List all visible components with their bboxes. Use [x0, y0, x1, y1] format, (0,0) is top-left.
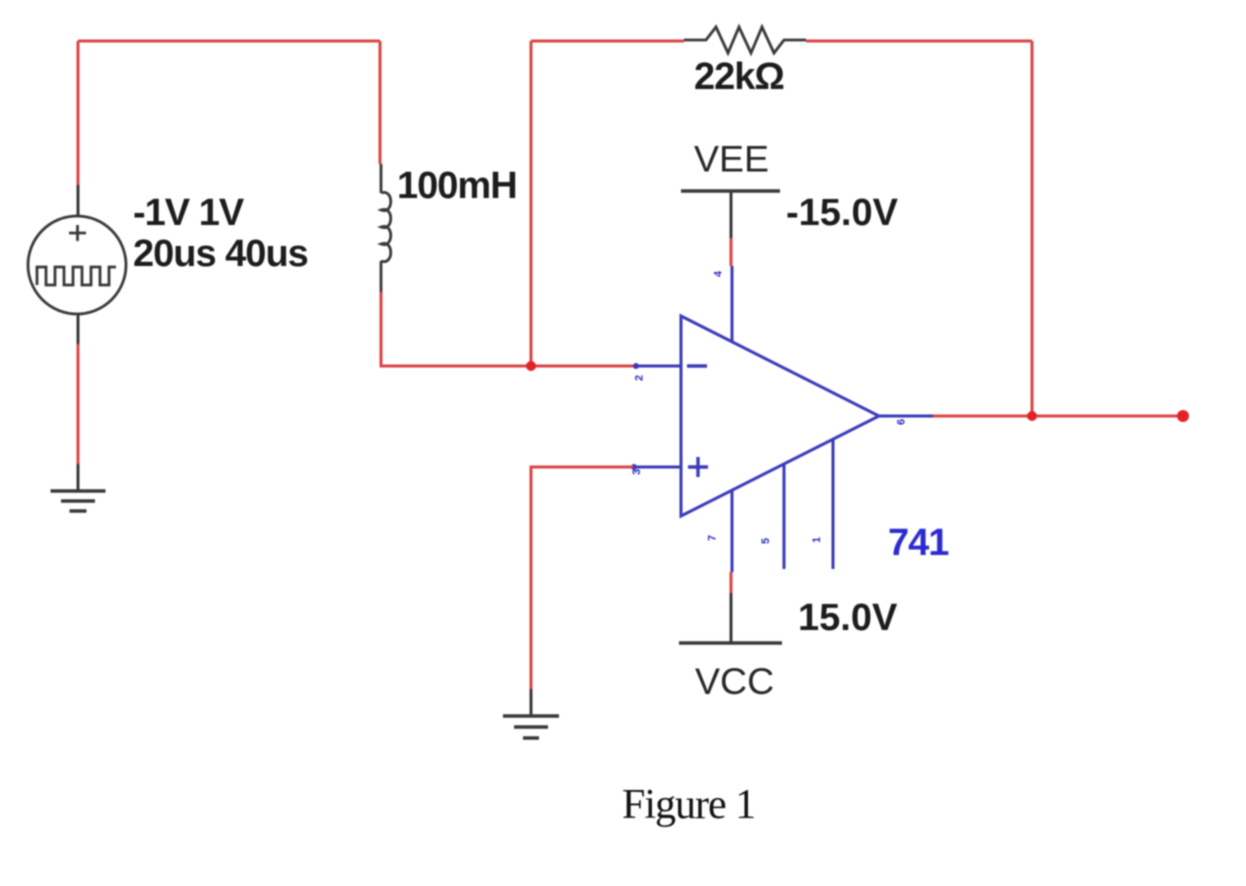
svg-text:-15.0V: -15.0V	[786, 192, 899, 234]
wire source bottom stub	[77, 314, 80, 344]
svg-text:2: 2	[634, 375, 646, 381]
pin 4 lead	[731, 266, 734, 342]
ground (mid, noninverting input)	[503, 716, 559, 738]
svg-text:3: 3	[631, 469, 643, 475]
svg-text:741: 741	[888, 522, 949, 564]
pin 3 lead	[633, 466, 681, 469]
svg-text:15.0V: 15.0V	[798, 597, 898, 639]
wire output	[933, 415, 1183, 418]
wire right vertical	[1031, 41, 1034, 416]
wire inductor bottom to pin2	[381, 292, 635, 366]
wire ground stub left	[77, 464, 80, 491]
VEE supply	[730, 238, 733, 266]
ground (left, under source)	[51, 491, 106, 511]
wire resistor to right corner	[806, 40, 1032, 43]
wire top-left rail	[78, 40, 380, 43]
node junction inductor/feedback	[526, 361, 536, 371]
svg-text:4: 4	[713, 270, 725, 277]
wire top rail to resistor	[531, 40, 684, 43]
pin 6 output lead	[879, 415, 933, 418]
svg-text:22kΩ: 22kΩ	[694, 56, 784, 98]
wire source top stub	[77, 185, 80, 217]
op-amp plus mark	[688, 457, 708, 477]
pin 1 lead	[832, 439, 835, 569]
VCC supply	[730, 572, 733, 593]
node output end	[1177, 410, 1189, 422]
node output junction	[1027, 411, 1037, 421]
svg-text:5: 5	[760, 538, 772, 544]
wire ground stub mid	[530, 689, 533, 716]
wire source to ground	[77, 344, 80, 464]
wire noninverting input	[531, 467, 633, 689]
svg-text:20us 40us: 20us 40us	[133, 233, 308, 275]
pin 5 lead	[783, 464, 786, 569]
op-amp minus mark	[687, 364, 707, 367]
svg-text:VEE: VEE	[694, 138, 769, 180]
resistor R1 22k	[684, 27, 806, 53]
pin 2 lead	[635, 365, 681, 368]
wire middle vertical from top rail	[530, 41, 533, 366]
wire left vertical (source top)	[77, 41, 80, 185]
svg-text:6: 6	[896, 419, 908, 425]
pulse source V1	[28, 216, 126, 314]
svg-text:VCC: VCC	[695, 660, 774, 702]
svg-text:7: 7	[707, 535, 719, 541]
op-amp U1 triangle	[681, 316, 879, 516]
inductor L1 100mH	[381, 164, 391, 292]
pin 7 lead	[731, 490, 734, 572]
wire inductor top	[379, 41, 382, 164]
svg-text:1: 1	[811, 537, 823, 543]
svg-text:-1V 1V: -1V 1V	[133, 192, 245, 234]
svg-text:100mH: 100mH	[397, 165, 517, 207]
svg-text:Figure 1: Figure 1	[622, 782, 755, 828]
